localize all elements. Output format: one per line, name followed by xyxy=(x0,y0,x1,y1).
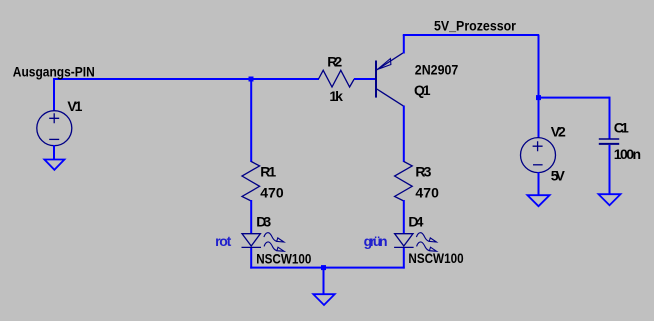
svg-text:D3: D3 xyxy=(256,214,271,230)
wire R1 branch upper xyxy=(250,78,252,162)
wire V2 branch vertical xyxy=(538,35,540,138)
D3 light arrows xyxy=(264,233,284,252)
wire top rail 5V_Prozessor xyxy=(403,34,539,36)
svg-text:5V_Prozessor: 5V_Prozessor xyxy=(434,17,516,33)
wire R2 right to base xyxy=(354,78,376,80)
wire C1 top lead xyxy=(609,97,611,139)
wire emitter lead xyxy=(403,35,405,54)
node V2/C1 junction xyxy=(536,95,541,100)
svg-text:470: 470 xyxy=(415,184,439,200)
svg-text:rot: rot xyxy=(215,233,232,249)
wire D3 bottom xyxy=(250,248,252,269)
svg-text:1k: 1k xyxy=(329,88,343,104)
wire R3 to D4 xyxy=(403,200,405,234)
wire V1 top lead xyxy=(53,78,55,111)
wire C1 bottom lead xyxy=(609,145,611,194)
node Ausgangs-PIN junction xyxy=(249,77,254,82)
wire D4 bottom xyxy=(403,248,405,269)
wire R1 to D3 xyxy=(250,200,252,234)
capacitor C1 xyxy=(599,139,619,144)
ground under V1 xyxy=(44,160,64,170)
wire V2 bottom lead xyxy=(538,172,540,195)
wire mid rail to C1 xyxy=(538,97,610,99)
wire V1 bottom lead xyxy=(53,145,55,160)
svg-text:R1: R1 xyxy=(260,163,276,179)
svg-text:470: 470 xyxy=(260,185,284,201)
svg-text:C1: C1 xyxy=(614,120,629,136)
LED D3 xyxy=(242,234,262,248)
svg-text:5V: 5V xyxy=(551,168,566,184)
node bottom rail junction xyxy=(321,265,326,270)
svg-text:NSCW100: NSCW100 xyxy=(408,250,463,266)
wire ground stub xyxy=(323,267,325,294)
svg-text:R3: R3 xyxy=(415,163,431,179)
svg-text:Ausgangs-PIN: Ausgangs-PIN xyxy=(13,63,95,79)
ground bottom middle xyxy=(313,294,334,305)
voltage source V2 xyxy=(521,138,556,173)
LED D4 xyxy=(394,234,414,248)
transistor Q1 xyxy=(376,53,404,106)
svg-text:NSCW100: NSCW100 xyxy=(256,251,311,267)
ground under V2 xyxy=(527,195,549,206)
svg-text:V1: V1 xyxy=(67,98,82,114)
resistor R2 xyxy=(319,70,355,87)
svg-text:D4: D4 xyxy=(408,214,423,230)
wire collector lead xyxy=(403,106,405,163)
svg-text:Q1: Q1 xyxy=(414,82,431,98)
voltage source V1 xyxy=(37,111,72,146)
wire Ausgangs-PIN rail xyxy=(53,78,319,80)
svg-text:grün: grün xyxy=(364,233,388,249)
ground under C1 xyxy=(599,194,621,205)
D4 light arrows xyxy=(416,233,436,252)
resistor R3 xyxy=(395,162,413,202)
svg-text:100n: 100n xyxy=(614,146,641,162)
svg-text:V2: V2 xyxy=(551,123,566,139)
svg-text:R2: R2 xyxy=(327,53,342,69)
resistor R1 xyxy=(242,162,260,202)
wire bottom rail xyxy=(250,267,405,269)
svg-text:2N2907: 2N2907 xyxy=(415,62,459,78)
